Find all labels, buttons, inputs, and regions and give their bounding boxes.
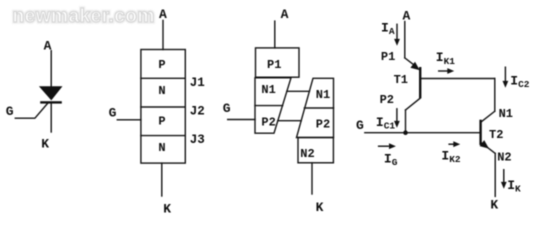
svg-text:T1: T1 bbox=[394, 73, 408, 87]
svg-text:IK2: IK2 bbox=[441, 149, 461, 166]
svg-text:N2: N2 bbox=[497, 150, 511, 164]
svg-text:A: A bbox=[159, 7, 167, 22]
svg-text:G: G bbox=[6, 104, 14, 119]
svg-text:K: K bbox=[490, 197, 498, 212]
svg-text:K: K bbox=[316, 200, 324, 215]
svg-text:IC1: IC1 bbox=[376, 115, 396, 132]
svg-text:K: K bbox=[41, 136, 49, 151]
svg-text:IK: IK bbox=[507, 178, 521, 195]
svg-text:N: N bbox=[158, 84, 165, 98]
svg-text:A: A bbox=[44, 39, 52, 54]
svg-text:J2: J2 bbox=[190, 104, 205, 118]
svg-text:A: A bbox=[281, 7, 289, 22]
svg-text:P1: P1 bbox=[381, 50, 395, 64]
svg-text:P2: P2 bbox=[316, 118, 330, 132]
svg-text:P2: P2 bbox=[261, 115, 275, 129]
svg-text:P2: P2 bbox=[380, 93, 394, 107]
svg-text:K: K bbox=[163, 202, 171, 217]
svg-text:P: P bbox=[158, 115, 165, 129]
svg-text:A: A bbox=[403, 8, 411, 23]
svg-text:N: N bbox=[158, 141, 165, 155]
svg-text:G: G bbox=[109, 106, 117, 121]
svg-text:P1: P1 bbox=[267, 58, 281, 72]
svg-text:P: P bbox=[158, 58, 165, 72]
svg-text:N1: N1 bbox=[316, 88, 330, 102]
svg-text:J1: J1 bbox=[190, 76, 205, 90]
svg-text:T2: T2 bbox=[489, 128, 503, 142]
svg-text:G: G bbox=[356, 118, 364, 133]
svg-text:IC2: IC2 bbox=[510, 73, 530, 90]
svg-text:IG: IG bbox=[384, 152, 398, 169]
svg-text:N2: N2 bbox=[300, 147, 314, 161]
svg-text:G: G bbox=[223, 101, 231, 116]
svg-text:IK1: IK1 bbox=[436, 50, 456, 67]
svg-text:N1: N1 bbox=[261, 83, 275, 97]
svg-text:IA: IA bbox=[381, 20, 395, 37]
svg-text:newmaker.com: newmaker.com bbox=[13, 6, 155, 27]
svg-text:J3: J3 bbox=[190, 133, 205, 147]
svg-text:N1: N1 bbox=[499, 107, 513, 121]
